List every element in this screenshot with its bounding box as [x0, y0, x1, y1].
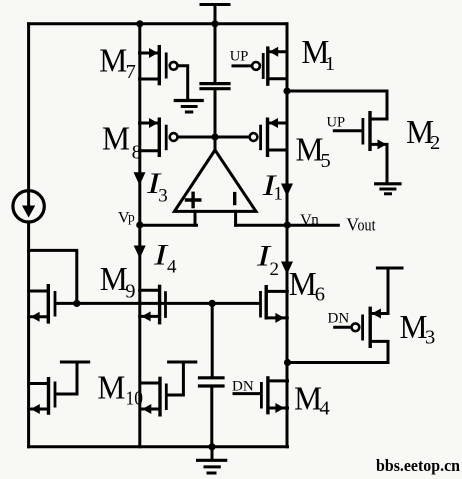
- svg-text:6: 6: [315, 284, 325, 306]
- svg-text:3: 3: [425, 327, 435, 349]
- svg-text:7: 7: [126, 61, 136, 83]
- svg-text:DN: DN: [328, 311, 350, 327]
- svg-text:10: 10: [126, 387, 144, 409]
- svg-text:UP: UP: [327, 114, 346, 130]
- svg-text:p: p: [128, 209, 135, 224]
- svg-text:n: n: [311, 212, 319, 228]
- svg-text:V: V: [300, 210, 312, 229]
- svg-text:bbs.eetop.cn: bbs.eetop.cn: [376, 456, 460, 475]
- svg-text:2: 2: [270, 259, 280, 280]
- svg-text:M: M: [99, 42, 127, 79]
- svg-text:5: 5: [321, 150, 331, 172]
- svg-text:M: M: [100, 261, 128, 298]
- svg-text:2: 2: [430, 132, 440, 154]
- svg-text:UP: UP: [230, 48, 249, 64]
- svg-text:9: 9: [125, 280, 135, 302]
- svg-text:M: M: [296, 132, 324, 169]
- svg-text:3: 3: [158, 185, 168, 206]
- svg-text:8: 8: [132, 142, 142, 164]
- svg-text:4: 4: [167, 257, 177, 278]
- svg-text:M: M: [97, 370, 125, 407]
- svg-text:1: 1: [273, 184, 283, 205]
- svg-text:M: M: [400, 309, 428, 346]
- svg-text:M: M: [289, 266, 317, 303]
- svg-text:out: out: [358, 216, 376, 235]
- svg-text:1: 1: [325, 53, 335, 75]
- svg-text:4: 4: [320, 398, 330, 420]
- svg-text:M: M: [102, 121, 130, 158]
- svg-text:M: M: [294, 381, 322, 418]
- svg-text:DN: DN: [232, 379, 254, 395]
